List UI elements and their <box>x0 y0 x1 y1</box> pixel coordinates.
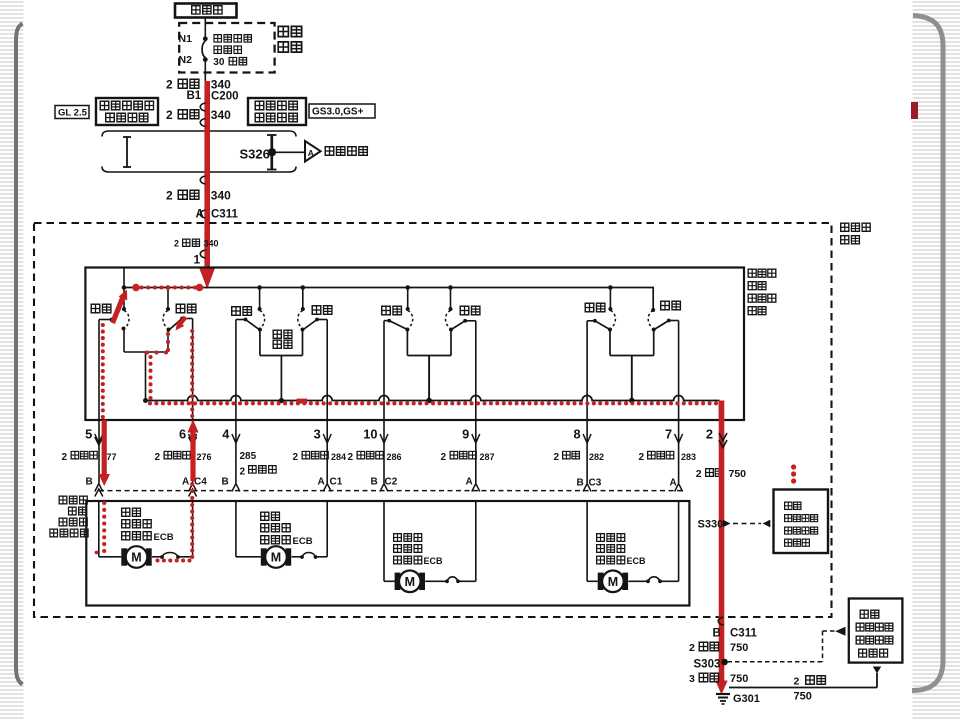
svg-text:B: B <box>577 478 584 489</box>
svg-text:2: 2 <box>696 468 702 480</box>
svg-text:340: 340 <box>211 189 231 203</box>
svg-text:A: A <box>318 477 325 488</box>
svg-text:10: 10 <box>363 427 377 442</box>
svg-text:750: 750 <box>730 673 748 685</box>
svg-text:1: 1 <box>194 253 201 267</box>
svg-text:276: 276 <box>197 452 212 462</box>
svg-text:2: 2 <box>166 78 173 92</box>
svg-text:C4: C4 <box>194 477 207 488</box>
svg-text:ECB: ECB <box>154 532 174 543</box>
svg-text:3: 3 <box>689 673 695 685</box>
svg-text:A: A <box>670 478 677 489</box>
svg-text:283: 283 <box>681 452 696 462</box>
svg-text:C311: C311 <box>211 209 238 221</box>
svg-text:GL 2.5: GL 2.5 <box>58 108 88 119</box>
svg-text:ECB: ECB <box>627 556 647 566</box>
svg-text:2: 2 <box>706 427 713 442</box>
svg-text:B1: B1 <box>187 90 202 102</box>
svg-text:A: A <box>466 477 473 488</box>
svg-text:B: B <box>371 477 378 488</box>
svg-text:2: 2 <box>639 452 645 463</box>
svg-text:7: 7 <box>665 427 672 442</box>
svg-text:2: 2 <box>166 108 173 122</box>
svg-text:2: 2 <box>174 239 179 249</box>
svg-text:750: 750 <box>730 642 748 654</box>
svg-text:B: B <box>713 628 721 640</box>
svg-text:B: B <box>222 477 229 488</box>
svg-text:284: 284 <box>331 452 346 462</box>
svg-text:G301: G301 <box>733 693 760 705</box>
svg-text:A: A <box>308 148 314 158</box>
svg-text:340: 340 <box>204 239 219 249</box>
svg-text:287: 287 <box>480 452 495 462</box>
svg-text:286: 286 <box>387 452 402 462</box>
svg-text:340: 340 <box>211 78 231 92</box>
svg-text:S303: S303 <box>694 659 721 671</box>
svg-text:2: 2 <box>554 452 560 463</box>
svg-text:GS3.0,GS+: GS3.0,GS+ <box>312 107 364 118</box>
svg-text:M: M <box>405 575 415 589</box>
svg-text:C2: C2 <box>385 477 398 488</box>
svg-text:340: 340 <box>211 108 231 122</box>
svg-text:2: 2 <box>155 452 161 463</box>
svg-text:C1: C1 <box>330 477 343 488</box>
svg-text:C200: C200 <box>211 91 239 103</box>
svg-text:750: 750 <box>794 691 812 703</box>
svg-text:6: 6 <box>179 427 186 442</box>
svg-text:285: 285 <box>240 451 257 462</box>
svg-text:30: 30 <box>213 57 225 68</box>
svg-text:M: M <box>271 551 281 565</box>
svg-text:2: 2 <box>293 452 299 463</box>
svg-text:8: 8 <box>573 427 580 442</box>
svg-text:N2: N2 <box>179 54 193 66</box>
svg-text:3: 3 <box>314 427 321 442</box>
svg-text:N1: N1 <box>179 33 193 45</box>
svg-text:2: 2 <box>240 467 246 478</box>
svg-text:2: 2 <box>441 452 447 463</box>
svg-text:B: B <box>86 477 93 488</box>
svg-text:M: M <box>608 575 618 589</box>
svg-text:282: 282 <box>589 452 604 462</box>
svg-text:S326: S326 <box>240 147 270 162</box>
svg-text:5: 5 <box>85 427 92 442</box>
svg-text:2: 2 <box>166 189 173 203</box>
svg-text:ECB: ECB <box>424 556 444 566</box>
svg-text:750: 750 <box>729 468 747 480</box>
svg-text:9: 9 <box>462 427 469 442</box>
svg-text:C3: C3 <box>589 478 602 489</box>
svg-text:2: 2 <box>348 452 354 463</box>
svg-text:2: 2 <box>794 676 800 688</box>
svg-text:A: A <box>182 477 189 488</box>
svg-text:4: 4 <box>222 427 230 442</box>
svg-text:2: 2 <box>62 452 68 463</box>
svg-text:2: 2 <box>689 642 695 654</box>
svg-text:ECB: ECB <box>293 536 313 547</box>
svg-text:S330: S330 <box>698 519 724 531</box>
svg-text:M: M <box>131 551 141 565</box>
svg-text:C311: C311 <box>730 628 757 640</box>
